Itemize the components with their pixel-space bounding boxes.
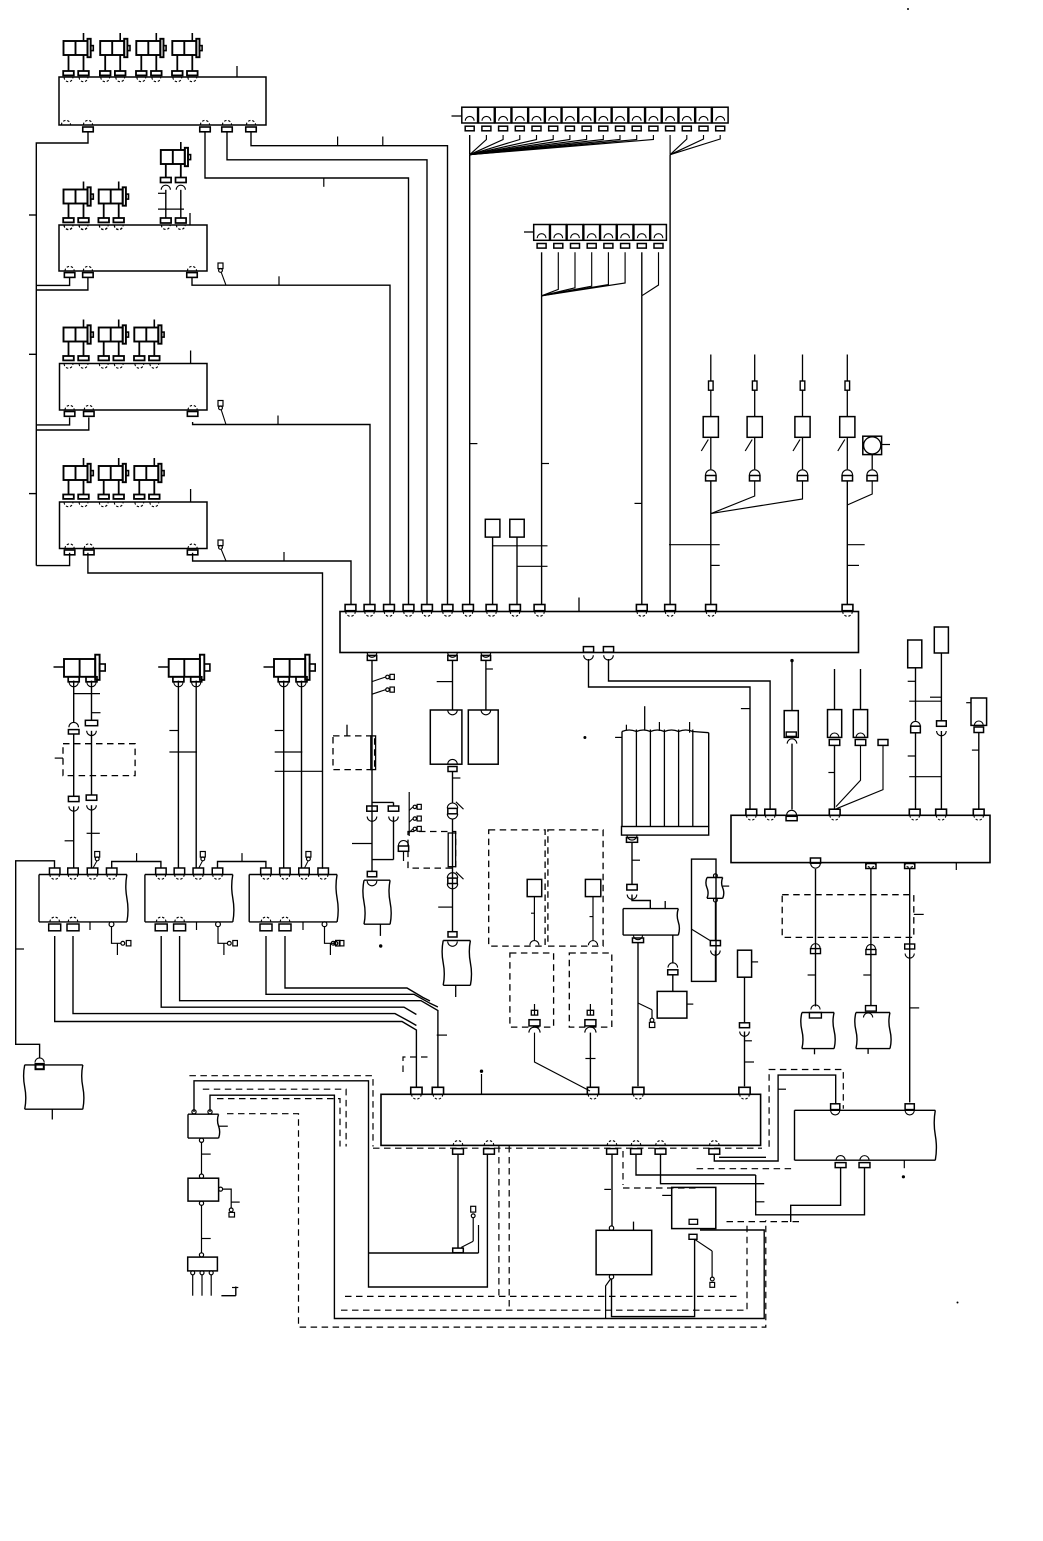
resistor in D2	[585, 879, 600, 896]
solenoid valves on J3	[64, 328, 88, 342]
row2 fan to bundle point C	[541, 252, 543, 295]
dashed resistor box D1	[489, 830, 545, 946]
wire ECU A pin1 feed	[16, 861, 55, 1058]
B1 bottom pins type1	[367, 653, 377, 658]
U1 lower connectors	[68, 796, 79, 801]
wire chain F1 to bar	[710, 481, 712, 605]
diagnostic terminal cluster	[408, 792, 410, 836]
wire K1 to bar	[492, 537, 494, 604]
bundle wire B down to bar	[669, 155, 671, 605]
wire chain F4 to bar	[846, 481, 848, 605]
fuse-switch chain F4	[846, 355, 848, 382]
dashed shield corridor R	[769, 1070, 843, 1147]
battery connector	[35, 1058, 44, 1063]
shield corridor dashed a	[189, 1076, 373, 1147]
B1 top stub pin	[578, 598, 580, 612]
terminal tap 458	[461, 1241, 473, 1247]
noise filter box M	[596, 1230, 652, 1274]
ECU box A	[39, 875, 128, 922]
wire M to N	[612, 1239, 695, 1316]
box R bottom pins	[836, 1156, 845, 1161]
control unit box R	[795, 1110, 937, 1160]
wire 452.5 to relay P1	[452, 660, 454, 710]
wire i to ii	[201, 1142, 203, 1174]
wire J3 pin3 to bar w/ fusible link	[193, 422, 370, 605]
wire bar3 660 to right	[661, 1155, 765, 1184]
sensor chain 979	[971, 698, 987, 725]
wire P1 down	[452, 772, 454, 804]
wire ticks VSV5	[158, 192, 166, 194]
elevated solenoid valve VSV5	[161, 150, 185, 164]
U3 wires to ECU C	[283, 681, 285, 868]
fuse block (striped)	[622, 730, 709, 733]
diode/lamp symbol	[863, 436, 882, 454]
fuse-switch chain F2	[754, 355, 756, 382]
fuse-switch chain F1	[710, 355, 712, 382]
battery box	[24, 1065, 84, 1109]
tick wires right cluster	[669, 544, 720, 546]
wire J2 pin2 to bus	[36, 277, 88, 290]
wire bar3 636 to right	[636, 1155, 756, 1176]
oxygen sensor W1	[811, 1005, 820, 1010]
wire T component down	[714, 902, 716, 941]
fusible taps on ECU pin3	[95, 852, 100, 858]
wire D4 injector to B3	[589, 1033, 591, 1088]
connector to sensor Q2	[448, 932, 457, 937]
solenoid valve group VSV1-4	[64, 41, 88, 55]
link bus B4-C1	[218, 862, 266, 869]
box K bottom pin net to bar3	[633, 935, 642, 940]
box R top pins	[831, 1104, 840, 1110]
wire M ground to corridor	[606, 1279, 611, 1319]
wire J1 pin to left bus	[36, 132, 88, 566]
link bus A4-B1	[112, 862, 161, 869]
J2 top arcs	[64, 225, 73, 229]
dashed injector box D3	[510, 953, 554, 1027]
dashed corner near bundle	[403, 1057, 430, 1072]
relay square K1	[485, 519, 500, 537]
fusible link FL1	[218, 263, 223, 269]
box iii leads	[191, 1271, 195, 1275]
box K right pin to box L	[672, 935, 674, 963]
bundle wire A down to bar	[469, 155, 471, 605]
B2 top pin 792 inverted	[787, 810, 797, 815]
wire 588.5 to bar2 pin 750	[589, 659, 751, 809]
wire chain F3 merge	[712, 481, 803, 514]
stub pin J2 top right	[189, 213, 191, 225]
J4 bottom pins	[65, 544, 74, 549]
shield wire Wa (box i pin1 to B3 pin489)	[194, 1081, 487, 1287]
wire J2 pin1 to bus	[36, 277, 69, 285]
ECU A bottom pins	[50, 917, 60, 922]
check connector B	[218, 927, 227, 944]
wire 744.5 to bar3	[744, 977, 746, 1023]
junction bar B3	[381, 1094, 761, 1145]
enclosure box T	[692, 859, 717, 981]
ECU box C	[249, 875, 338, 922]
junction dot 792	[790, 659, 793, 662]
dashed under B3	[373, 1147, 762, 1149]
wire 485.9 to relay P2	[485, 660, 487, 710]
B3 top pins	[411, 1087, 422, 1094]
row1 right fan to bundle point B	[669, 135, 671, 155]
U1 wires to ECU A	[73, 681, 75, 723]
terminal tap on 638	[638, 1003, 652, 1010]
fusible link FL2	[218, 401, 223, 407]
connector chain 883 merge	[878, 740, 888, 746]
fuse block top stubs	[625, 725, 627, 731]
wire 871 down	[870, 869, 872, 1006]
stub pin J4 top right	[190, 489, 192, 502]
resistor in D1	[527, 879, 542, 896]
sensor box S372	[363, 880, 391, 924]
wire B3 pin612 to box M	[611, 1154, 613, 1226]
relay square K2	[510, 519, 524, 537]
wire ii to iii	[199, 1201, 203, 1205]
solenoid unit U1	[54, 666, 65, 668]
wire J1 pin C to bar	[251, 132, 448, 605]
check connector A	[112, 927, 121, 944]
sensor chain 834	[834, 669, 836, 710]
shield corridor dashed d	[227, 1114, 766, 1327]
dashed resistor box D2	[548, 830, 603, 946]
sensor box Q2	[442, 941, 471, 986]
connector pair w/ latch 1	[447, 803, 457, 808]
wire J3 pin1 to bus	[36, 417, 69, 425]
wire chain F2 merge	[712, 481, 755, 514]
sensor chain 941	[934, 627, 948, 653]
injector connector row 1 (16)	[462, 107, 478, 123]
dashed box on 452 wire	[408, 832, 456, 869]
solenoid valves on J2	[64, 190, 88, 204]
solenoid unit U3	[264, 666, 275, 668]
tick on 755 wire	[756, 1201, 765, 1203]
row2 left stub	[524, 231, 534, 233]
row1 harness fan to bundle point A	[469, 135, 471, 155]
wire D3 injector to B3 diagonal	[535, 1033, 591, 1091]
shield corridor dashed b	[203, 1089, 346, 1146]
wire 714 corridor to R	[714, 1075, 835, 1161]
B1 top pins	[345, 605, 356, 611]
B1 bottom pins type2	[583, 647, 593, 653]
component inside T	[706, 878, 724, 899]
wire J3 pin2 to bus	[36, 417, 89, 430]
injector symbol in D3	[534, 1004, 536, 1015]
tick 372	[352, 843, 372, 845]
junction connector block J4	[60, 502, 208, 549]
wire 632 to box K	[631, 842, 633, 884]
U1 connector pair right	[85, 720, 97, 725]
check connector C	[325, 927, 334, 944]
relay P2	[468, 710, 498, 764]
dashed injector box D4	[569, 953, 612, 1027]
injector connector row 2 (8)	[534, 225, 550, 241]
igniter box N	[672, 1187, 716, 1228]
relay P1	[430, 710, 462, 764]
U2 wires to ECU B	[177, 681, 179, 868]
stub pin J3 top right	[190, 351, 192, 364]
U1 connector pair left	[69, 722, 79, 727]
control box K	[623, 909, 679, 936]
block1 bottom pins	[61, 120, 70, 125]
dashed box U1	[63, 744, 135, 776]
wire lamp chain merge	[871, 455, 873, 470]
junction connector block J2	[59, 225, 207, 271]
connector to sensor S372	[367, 871, 376, 876]
left bus ticks	[29, 214, 36, 216]
tick K1	[493, 545, 548, 547]
wire 792 w/ resistor	[791, 662, 793, 711]
wire J2 pin3 to bar w/ fusible link	[192, 277, 390, 604]
tick K2	[517, 565, 548, 567]
injector symbol in D4	[589, 1004, 591, 1015]
wire J4 pin1 to bus	[36, 553, 69, 566]
distributor box iii	[188, 1257, 218, 1271]
sensor chain 860 merge	[860, 669, 862, 710]
dot top right	[907, 8, 909, 10]
stub pin block1 top right	[236, 66, 238, 77]
diagonal branch in T	[692, 929, 711, 940]
bundle wire D down to bar	[641, 296, 643, 605]
ground symbol	[235, 1287, 237, 1296]
dashed corridor from B3 pins	[498, 1146, 500, 1296]
B2 bottom pins	[810, 858, 820, 863]
row2 wires 7-8	[641, 252, 643, 295]
sensor box 744	[738, 950, 752, 977]
igniter box i	[188, 1114, 220, 1138]
box L	[657, 991, 687, 1018]
resistor R792	[784, 711, 798, 738]
shield corridor dashed c	[217, 1099, 340, 1147]
wire 815 down	[815, 869, 817, 1007]
tap from box ii	[223, 1189, 232, 1208]
ECU harness bundle lines	[55, 936, 417, 1087]
junction connector block J3	[60, 364, 208, 411]
ECU B bottom pins	[156, 917, 166, 922]
sensor chain 915	[908, 640, 922, 668]
ECU box B	[145, 875, 234, 922]
wire J1 pin B to bar	[227, 132, 427, 605]
bundle tick	[437, 1034, 447, 1036]
fuse block bottom pin	[627, 835, 637, 840]
dashed connector box on 372	[333, 736, 375, 770]
fuse-switch chain F3	[802, 355, 804, 382]
J2 bottom pins	[65, 266, 74, 271]
oxygen sensor W2	[866, 1006, 877, 1012]
terminal tap N	[695, 1239, 713, 1251]
B2 top pins	[746, 809, 757, 815]
dashed stub right of box N	[727, 1221, 801, 1223]
B3 bottom pins	[453, 1141, 463, 1146]
connector pair w/ latch 2	[447, 873, 457, 878]
shield wire Wb (box i pin2 loop)	[210, 1095, 764, 1318]
coil box ii	[188, 1178, 219, 1201]
fusible link FL3	[218, 540, 223, 546]
wire J4 pin2 long feed right	[88, 553, 323, 869]
dashed box under B2	[782, 895, 914, 938]
junction bar B2	[731, 815, 990, 862]
dot bottom right	[957, 1302, 959, 1304]
dashed corner near box M wire	[622, 1151, 624, 1185]
B3 junction dot	[480, 1070, 483, 1073]
main junction bar B1	[340, 612, 859, 653]
wire net 372 down	[371, 660, 373, 871]
wire J1 pin A to bar	[205, 132, 409, 605]
solenoid unit U2	[158, 666, 169, 668]
ECU C bottom pins	[261, 917, 271, 922]
terminal taps on 372	[372, 677, 386, 682]
wire 910 down to box R	[909, 869, 911, 1103]
stray terminal left	[331, 941, 335, 945]
wire B3 pin458 down	[457, 1154, 459, 1248]
wire 608.5 to bar2 pin 770	[609, 659, 771, 809]
J3 bottom pins	[65, 405, 74, 410]
wires box R bottom	[791, 1168, 841, 1222]
bundle wire C down to bar	[541, 296, 543, 605]
parallel wire stub y1157	[719, 1156, 766, 1158]
wire K2 to bar	[516, 537, 518, 604]
junction connector block J1	[59, 77, 266, 125]
372 split connectors	[372, 801, 394, 803]
wire J4 pin3 to bar w/ fusible link	[193, 553, 351, 605]
solenoid valves on J4	[64, 466, 88, 480]
row1 left stub	[452, 115, 462, 117]
